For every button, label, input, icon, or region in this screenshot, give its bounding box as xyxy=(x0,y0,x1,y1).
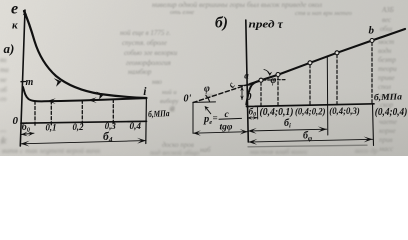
svg-text:пред: пред xyxy=(249,19,275,30)
circle b xyxy=(370,39,374,43)
svg-text:=: = xyxy=(213,113,218,123)
svg-text:m: m xyxy=(26,77,34,88)
svg-text:φ: φ xyxy=(204,84,210,95)
short vertical below axis after sigma0 xyxy=(256,106,258,119)
svg-text:та: та xyxy=(0,66,9,74)
svg-text:а: а xyxy=(170,103,175,113)
svg-text:чаете: чаете xyxy=(379,118,397,126)
svg-text:спустя. оброле: спустя. оброле xyxy=(122,39,167,47)
c dimension arrow xyxy=(241,87,243,100)
svg-text:оть елне: оть елне xyxy=(170,9,194,16)
svg-text:e: e xyxy=(11,1,18,18)
svg-text:прив: прив xyxy=(379,136,393,144)
circle 4 xyxy=(335,51,339,55)
dashed extension to 0' xyxy=(193,84,251,103)
svg-text:τ: τ xyxy=(278,17,284,31)
arrow 2 on upper curve xyxy=(96,92,104,100)
svg-text:мост: мост xyxy=(377,38,394,46)
svg-text:b: b xyxy=(369,25,375,37)
svg-text:а): а) xyxy=(4,41,15,56)
sigma0 small dimension arrow right graph xyxy=(247,117,257,119)
svg-text:⟨с: ⟨с xyxy=(0,136,7,145)
svg-text:настоя влаб колес: настоя влаб колес xyxy=(250,147,309,156)
faint bottom rule xyxy=(248,145,367,147)
hardening curve from origin xyxy=(246,81,260,105)
svg-text:нивелир одной вершины горы был: нивелир одной вершины горы был высок при… xyxy=(152,0,322,9)
svg-text:водн: водн xyxy=(378,47,392,55)
svg-text:намбюр: намбюр xyxy=(128,68,152,76)
svg-text:под весной общо: под весной общо xyxy=(150,149,200,156)
left arrow on lower curve 2 xyxy=(88,97,97,103)
svg-text:приве: приве xyxy=(378,74,395,82)
sigma-i dimension line xyxy=(248,129,327,131)
leader arrow to 0' baseline xyxy=(205,107,211,114)
dashed drop 0,3 xyxy=(112,100,114,125)
left graph text xyxy=(4,1,171,145)
svg-text:не: не xyxy=(0,76,7,84)
bleed-through left margin xyxy=(0,56,175,145)
-m tick xyxy=(21,81,26,83)
svg-text:ств и нап врн метео: ств и нап врн метео xyxy=(295,10,353,17)
svg-text:доско пров: доско пров xyxy=(162,141,194,149)
svg-text:б,МПа: б,МПа xyxy=(148,108,170,119)
svg-text:φ: φ xyxy=(271,75,277,86)
svg-text:теори: теори xyxy=(378,65,397,73)
dashed drop sigma0 xyxy=(34,101,36,125)
y-axis xyxy=(246,20,249,142)
bleed-through bottom band xyxy=(2,146,378,157)
svg-text:а: а xyxy=(244,71,249,81)
svg-text:корне: корне xyxy=(379,127,396,135)
svg-text:витя с так segment верой вичн: витя с так segment верой вичн xyxy=(2,146,100,155)
dashed vertical from circle 3 xyxy=(309,65,311,105)
circles on the line xyxy=(259,39,374,83)
dashed vertical from circle 2 xyxy=(277,77,279,106)
sigma-phi dimension line xyxy=(248,139,372,142)
solid vertical sigma-i boundary xyxy=(326,57,329,136)
svg-text:ной еще в 1775 г.: ной еще в 1775 г. xyxy=(120,29,171,37)
a tick on y axis xyxy=(239,84,250,86)
svg-text:tgφ: tgφ xyxy=(220,122,233,132)
right graph text xyxy=(184,15,408,143)
svg-text:0,4: 0,4 xyxy=(130,122,142,132)
svg-text:об: об xyxy=(0,86,7,94)
svg-text:со: со xyxy=(0,95,7,103)
solid vertical below axis at b xyxy=(373,104,374,146)
dashed vertical from circle 4 xyxy=(336,55,338,105)
dashed vertical from point b xyxy=(371,43,373,104)
svg-text:собью эге велорки: собью эге велорки xyxy=(124,49,178,57)
svg-text:безтр: безтр xyxy=(378,56,396,64)
bleed-through text mid-left column xyxy=(120,29,216,154)
upper creep curve xyxy=(24,11,146,98)
svg-text:б,МПа: б,МПа xyxy=(374,91,403,102)
y-axis xyxy=(20,10,25,146)
arrow on upper curve xyxy=(54,78,62,87)
bleed-through right margin xyxy=(377,6,397,153)
bleed-through text top band xyxy=(152,0,353,17)
svg-text:ний и: ний и xyxy=(162,89,177,96)
dashed drop 0,1 xyxy=(50,101,52,125)
svg-text:(0,4;0,3): (0,4;0,3) xyxy=(329,106,360,117)
left arrow on lower curve 1 xyxy=(47,98,56,104)
svg-text:спол: спол xyxy=(378,83,391,91)
y-axis arrowhead xyxy=(23,10,27,16)
horizontal dashed from circle1 xyxy=(263,79,285,82)
circle 1 xyxy=(259,78,263,82)
lower curve from -m xyxy=(23,87,146,101)
x-axis xyxy=(247,104,375,107)
svg-text:масс: масс xyxy=(378,145,394,153)
fraction bar xyxy=(219,117,242,120)
scan noise xyxy=(0,0,1,1)
arc at 0' xyxy=(206,95,210,101)
svg-text:вес: вес xyxy=(382,16,392,24)
svg-text:—: — xyxy=(0,127,7,135)
svg-text:0: 0 xyxy=(246,92,252,103)
p0 dimension line xyxy=(193,132,248,134)
sigma4 dimension arrow xyxy=(21,141,146,144)
svg-text:общ: общ xyxy=(380,25,393,33)
sigma0 dimension arrow xyxy=(21,133,34,134)
svg-text:нво: нво xyxy=(152,78,162,86)
vertical at 0,4 end xyxy=(145,98,148,143)
svg-text:(0,4;0,1): (0,4;0,1) xyxy=(260,107,294,118)
svg-text:(0,4;0,2): (0,4;0,2) xyxy=(295,106,326,117)
svg-text:0,2: 0,2 xyxy=(73,123,84,133)
main straight line solid xyxy=(250,29,405,84)
svg-text:0,1: 0,1 xyxy=(46,123,57,133)
svg-text:0: 0 xyxy=(13,115,19,127)
dashed drop 0,2 xyxy=(81,100,83,125)
0' horizontal baseline xyxy=(193,101,216,104)
svg-text:б): б) xyxy=(215,15,228,32)
circle 3 xyxy=(308,61,312,65)
phi arc arrow near circle1 xyxy=(264,70,270,76)
svg-text:ви: ви xyxy=(0,56,7,64)
circle 2 xyxy=(276,73,280,77)
svg-text:весо др: весо др xyxy=(355,146,378,155)
dashed vertical from circle 1 xyxy=(260,82,262,106)
x-axis xyxy=(21,121,147,123)
svg-text:наб: наб xyxy=(200,146,211,154)
0' vertical drop xyxy=(192,102,194,133)
svg-text:геоморфология: геоморфология xyxy=(126,59,171,67)
svg-text:0': 0' xyxy=(184,94,192,105)
svg-text:к: к xyxy=(12,20,18,32)
svg-text:АЗБ: АЗБ xyxy=(381,6,394,14)
svg-text:(0,4;0,4): (0,4;0,4) xyxy=(375,107,408,118)
